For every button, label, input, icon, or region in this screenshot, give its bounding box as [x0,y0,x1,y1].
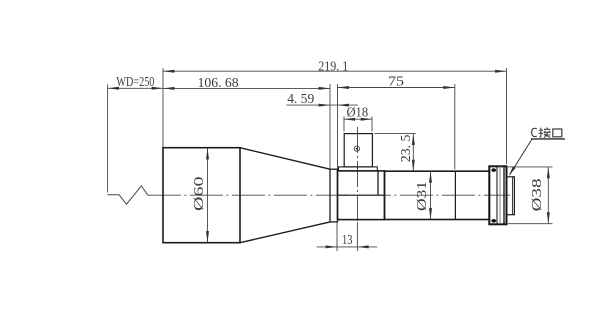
svg-text:Ø18: Ø18 [346,104,368,119]
glyph C [532,128,537,136]
svg-text:219. 1: 219. 1 [318,58,348,73]
dimension 75 [338,87,455,89]
ring at cone end [330,169,338,222]
dimension 219.1 [163,70,507,72]
extension line x506.5 (219.1 dim) [506,68,508,164]
extension line x163 [162,68,164,148]
extension line x455 (75 dim) [454,84,456,170]
label C-mount text [532,127,562,137]
glyph jie [539,128,543,138]
housing block [338,171,385,220]
mount flange dia38 [489,166,506,224]
lens barrel large cylinder [163,148,240,243]
port centerline vertical [357,127,359,221]
extension lines for dia18 [343,117,345,132]
port base plate [339,167,378,171]
dimension diameter 31 [430,171,432,219]
port box dia18 [344,134,372,167]
extension line WD left [107,85,109,193]
svg-text:WD=250: WD=250 [116,74,154,89]
dimension diameter 60 [207,148,209,243]
dimension diameter 38 [547,167,549,224]
extension line x330 [329,84,331,169]
dimension diameter 18 [344,118,372,120]
svg-text:4. 59: 4. 59 [287,91,314,106]
svg-text:Ø38: Ø38 [529,178,544,211]
label C-mount leader [510,139,533,175]
svg-text:Ø60: Ø60 [191,176,206,211]
extension line x337.5 [337,84,339,171]
C-mount stub [507,177,515,215]
dimension 106.68 [163,87,330,89]
set screw [354,146,359,151]
cone section [240,148,330,170]
centerline optical axis [148,194,510,196]
step inside block [377,171,379,195]
dimension WD=250 [108,87,163,89]
dimension 23.5 [412,134,414,172]
dimension 4.59 [286,104,357,106]
svg-text:75: 75 [388,73,404,88]
svg-text:106. 68: 106. 68 [198,75,239,90]
dimension 13 [317,246,378,248]
svg-text:23. 5: 23. 5 [398,134,413,162]
extension line for 13 [336,222,338,251]
glyph kou [553,129,562,137]
flange screw holes [491,168,496,172]
svg-text:Ø31: Ø31 [414,181,429,211]
svg-text:13: 13 [342,232,353,247]
zigzag break line (object plane) [107,186,147,204]
main tube dia31 [385,171,490,219]
tube seam [454,171,456,219]
